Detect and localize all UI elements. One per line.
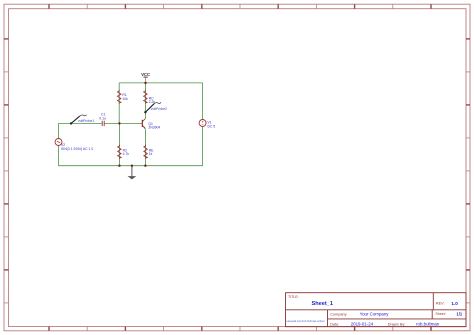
- junction node probe1 on input wire: [70, 122, 72, 124]
- wire left rail lower (V2 to ground rail): [58, 146, 60, 166]
- probe voltProbe1: [71, 115, 94, 124]
- title block TITLE label: [288, 295, 299, 299]
- svg-text:1.0: 1.0: [451, 301, 458, 306]
- svg-text:voltProbe1: voltProbe1: [78, 119, 94, 123]
- title block sheet name Sheet_1: [312, 301, 333, 307]
- resistor RC: [144, 90, 156, 105]
- title block company/date row divider: [328, 318, 467, 320]
- frame bottom ruler ticks: [49, 327, 431, 331]
- power flag VCC: [141, 72, 150, 83]
- junction node collector probe2: [144, 111, 146, 113]
- svg-text:REV:: REV:: [436, 301, 445, 305]
- svg-text:SIN(3 1 2000) AC 1 0: SIN(3 1 2000) AC 1 0: [61, 147, 93, 151]
- svg-text:Sheet_1: Sheet_1: [312, 301, 333, 307]
- transistor Q1: [142, 119, 160, 130]
- svg-text:10k: 10k: [122, 97, 128, 101]
- wire R2 column (base node to ground rail): [118, 123, 120, 165]
- svg-text:2N3904: 2N3904: [148, 126, 160, 130]
- svg-text:0.1u: 0.1u: [99, 116, 106, 120]
- svg-text:Your Company: Your Company: [360, 312, 390, 317]
- svg-text:TITLE:: TITLE:: [288, 295, 299, 299]
- svg-text:4.7k: 4.7k: [123, 152, 130, 156]
- junction node VCC/top rail: [144, 82, 146, 84]
- title block revision value 1.0: [451, 301, 458, 306]
- title block drawn by value: [416, 321, 440, 326]
- resistor R1: [117, 90, 128, 104]
- svg-text:Company:: Company:: [330, 313, 347, 317]
- svg-text:DC 5: DC 5: [208, 124, 216, 128]
- ground: [128, 166, 137, 180]
- junction node ground stem at rail: [131, 165, 133, 167]
- title block Company label: [330, 313, 347, 317]
- wire R1 column (top rail to base node): [118, 83, 120, 124]
- frame left ruler ticks: [4, 39, 9, 303]
- svg-text:Date:: Date:: [330, 322, 339, 326]
- title block row divider under TITLE row: [286, 309, 467, 311]
- wire bottom ground rail: [59, 165, 203, 167]
- svg-text:easyeda.com/rob.bultman-schem: easyeda.com/rob.bultman-schem: [286, 319, 324, 323]
- frame top ruler ticks: [49, 4, 431, 9]
- svg-text:2019-01-24: 2019-01-24: [351, 321, 374, 326]
- wire V1 branch lower: [202, 127, 204, 166]
- voltage source V2 (sine input): [55, 139, 93, 151]
- title block Drawn By label: [388, 322, 406, 326]
- svg-text:VCC: VCC: [141, 72, 150, 77]
- title block REV cell divider: [432, 293, 434, 310]
- title block document URL: [286, 319, 324, 323]
- title block date value: [351, 321, 374, 326]
- wire left rail upper (V2 to input node): [58, 123, 60, 138]
- capacitor C1: [99, 113, 106, 126]
- resistor R2: [118, 145, 130, 159]
- title block URL cell divider: [327, 310, 329, 327]
- wire RC column (top rail to collector): [144, 83, 146, 119]
- svg-text:1k: 1k: [149, 152, 153, 156]
- wire V1 branch upper: [202, 83, 204, 120]
- svg-text:Drawn By:: Drawn By:: [388, 322, 406, 326]
- wire input segment to C1: [59, 122, 102, 124]
- junction node base (R1/R2/base): [118, 122, 120, 124]
- wire C1 to base node: [105, 122, 143, 124]
- title block Date label: [330, 322, 339, 326]
- title block REV label: [436, 301, 445, 305]
- wire RE column (emitter to ground rail): [144, 129, 146, 165]
- junction node RE at ground rail: [144, 165, 146, 167]
- probe voltProbe2: [145, 102, 167, 112]
- title block Sheet cell divider: [431, 310, 433, 319]
- svg-text:Sheet:: Sheet:: [435, 312, 445, 316]
- svg-text:voltProbe2: voltProbe2: [151, 107, 167, 111]
- title block company value: [360, 312, 390, 317]
- title block sheet value 1/1: [456, 311, 462, 316]
- junction node R2 at ground rail: [118, 165, 120, 167]
- resistor RE: [144, 145, 154, 159]
- svg-text:rob.bultman: rob.bultman: [416, 321, 440, 326]
- title block Sheet label: [435, 312, 445, 316]
- voltage source V1 (DC 5): [199, 120, 215, 129]
- svg-text:1/1: 1/1: [456, 311, 462, 316]
- title block outline: [286, 293, 467, 327]
- wire top rail VCC: [119, 82, 202, 84]
- frame right ruler ticks: [466, 39, 470, 303]
